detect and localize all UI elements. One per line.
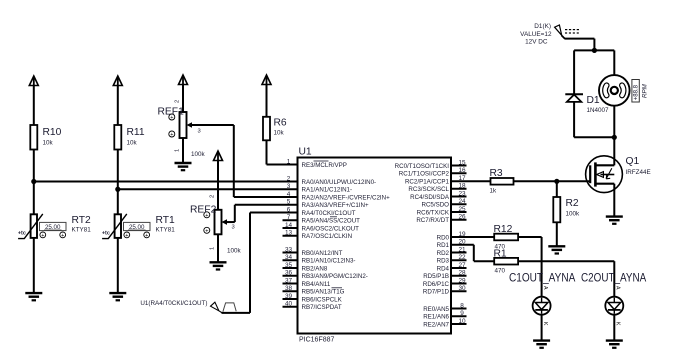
svg-text:470: 470 — [495, 268, 506, 275]
svg-text:1: 1 — [287, 158, 291, 165]
svg-text:RA4/T0CKI/C1OUT: RA4/T0CKI/C1OUT — [302, 210, 356, 217]
svg-text:RE1/AN6: RE1/AN6 — [423, 314, 449, 321]
svg-text:16: 16 — [458, 167, 466, 174]
svg-text:2: 2 — [287, 175, 291, 182]
svg-text:10: 10 — [458, 318, 466, 325]
U1 pin 24 RC5/SDO — [421, 198, 466, 209]
svg-text:1N4007: 1N4007 — [587, 107, 610, 114]
thermistor RT2 (KTY81) — [18, 214, 91, 239]
svg-text:RA3/AN3/VREF+/C1IN+: RA3/AN3/VREF+/C1IN+ — [302, 202, 369, 209]
svg-text:K: K — [615, 322, 621, 326]
wire U1 pin 6 (RA4) to test point — [222, 213, 298, 313]
power rail arrow for R10 — [29, 76, 38, 86]
svg-text:27: 27 — [458, 262, 466, 269]
svg-text:4: 4 — [287, 191, 291, 198]
svg-text:RB6/ICSPCLK: RB6/ICSPCLK — [302, 296, 343, 303]
svg-text:RB0/AN12/INT: RB0/AN12/INT — [302, 250, 343, 257]
U1 pin 19 RD0 — [437, 231, 466, 242]
svg-text:12V DC: 12V DC — [525, 39, 548, 46]
test point flag U1(RA4/T0CKI/C1OUT) — [140, 300, 236, 313]
svg-text:RD6/P1C: RD6/P1C — [423, 281, 450, 288]
svg-text:13: 13 — [285, 230, 293, 237]
svg-text:IRFZ44E: IRFZ44E — [626, 169, 651, 176]
U1 pin 20 RD1 — [437, 239, 466, 250]
wire REF2 wiper to U1 pin 5 (RA3) — [227, 205, 298, 222]
svg-text:R11: R11 — [127, 127, 145, 138]
svg-text:R2: R2 — [566, 198, 579, 209]
U1 pin 22 RD3 — [437, 254, 467, 265]
svg-text:1: 1 — [175, 149, 181, 152]
svg-text:+: + — [41, 233, 44, 239]
U1 pin 1 RE3/MCLR/VPP — [287, 158, 347, 169]
U1 pin 40 RB7/ICSPDAT — [283, 301, 342, 312]
wire R11 to RT1 — [117, 150, 119, 215]
svg-text:3: 3 — [232, 225, 235, 231]
svg-text:100k: 100k — [566, 211, 581, 218]
wire power to R11 — [117, 86, 119, 126]
wire LED2 to ground — [613, 315, 615, 341]
svg-text:28: 28 — [458, 270, 466, 277]
wire U1 pin 17 to R3 — [451, 180, 491, 182]
svg-text:1: 1 — [210, 247, 216, 250]
svg-text:RC6/TX/CK: RC6/TX/CK — [417, 209, 450, 216]
U1 pin 10 RE2/AN7 — [423, 318, 466, 329]
wire U1 pin 20 (RD1) to R1 — [451, 245, 494, 261]
U1 pin 16 RC1/T1OSI/CCP2 — [399, 167, 467, 178]
thermistor RT1 (KTY81) — [102, 214, 175, 239]
svg-text:40: 40 — [285, 301, 293, 308]
svg-text:RA5/AN4/SS/C2OUT: RA5/AN4/SS/C2OUT — [302, 218, 361, 225]
resistor R12 470 — [494, 224, 519, 251]
wire R1 to LED — [518, 261, 614, 297]
svg-text:33: 33 — [285, 246, 293, 253]
wire power to R6 — [266, 85, 268, 117]
svg-text:36: 36 — [285, 270, 293, 277]
svg-text:34: 34 — [285, 254, 293, 261]
svg-text:RC3/SCK/SCL: RC3/SCK/SCL — [408, 186, 449, 193]
svg-text:8: 8 — [460, 302, 464, 309]
svg-text:RT2: RT2 — [72, 215, 92, 226]
wire RA0 bus to U1 pin 2 — [34, 181, 298, 183]
svg-text:35: 35 — [285, 262, 293, 269]
svg-text:+tc: +tc — [18, 230, 26, 236]
svg-text:RD4: RD4 — [437, 265, 450, 272]
diode D1 1N4007 — [565, 94, 609, 114]
wire REF1 wiper to U1 pin 4 (RA2) — [192, 125, 298, 197]
svg-text:RB7/ICSPDAT: RB7/ICSPDAT — [302, 304, 342, 311]
wire RT2 to ground — [33, 238, 35, 293]
svg-text:C1OUT_AYNA: C1OUT_AYNA — [509, 271, 576, 285]
svg-text:7: 7 — [287, 214, 291, 221]
U1 pin 28 RD5/P1B — [423, 270, 466, 281]
svg-text:RC5/SDO: RC5/SDO — [421, 202, 449, 209]
U1 pin 13 RA7/OSC1/CLKIN — [283, 230, 353, 241]
overline SS — [330, 216, 337, 218]
svg-text:+: + — [170, 132, 173, 138]
wire motor to Q1 drain — [613, 106, 615, 166]
svg-text:+88.8: +88.8 — [634, 84, 640, 100]
U1 pin 39 RB6/ICSPCLK — [283, 293, 343, 304]
wire junction to R2 — [556, 181, 558, 197]
svg-text:A: A — [615, 286, 621, 290]
svg-text:3: 3 — [287, 183, 291, 190]
power rail arrow for REF1 — [179, 75, 188, 85]
wire supply to rail — [562, 35, 595, 50]
node junction R10/RA0 — [31, 179, 36, 184]
power rail arrow for R11 — [113, 76, 122, 86]
potentiometer REF2 100k — [190, 195, 242, 255]
svg-text:PIC16F887: PIC16F887 — [299, 337, 335, 344]
svg-text:C2OUT_AYNA: C2OUT_AYNA — [581, 271, 647, 285]
svg-text:RD0: RD0 — [437, 234, 450, 241]
svg-text:30: 30 — [458, 285, 466, 292]
node junction R11/RA1 — [115, 187, 120, 192]
microcontroller U1 PIC16F887 — [298, 147, 452, 344]
svg-text:K: K — [542, 322, 548, 326]
svg-text:D1: D1 — [587, 95, 600, 106]
svg-text:RC0/T1OSO/T1CKI: RC0/T1OSO/T1CKI — [395, 163, 450, 170]
ground below RT2 — [25, 293, 42, 300]
svg-text:A: A — [542, 286, 548, 290]
svg-text:RE2/AN7: RE2/AN7 — [423, 321, 449, 328]
svg-text:18: 18 — [458, 183, 466, 190]
svg-text:R6: R6 — [274, 118, 287, 129]
svg-text:+tc: +tc — [102, 230, 110, 236]
wire power to R10 — [33, 86, 35, 126]
led D3 C2OUT indicator — [605, 286, 623, 326]
svg-text:2: 2 — [175, 100, 181, 103]
U1 pin 18 RC3/SCK/SCL — [408, 183, 466, 194]
U1 pin 36 RB3/AN9/PGM/C12IN2- — [283, 270, 368, 281]
wire LED1 to ground — [541, 315, 543, 341]
U1 pin 3 RA1/AN1/C12IN1- — [287, 183, 352, 194]
svg-text:29: 29 — [458, 277, 466, 284]
svg-text:100k: 100k — [227, 248, 242, 255]
U1 pin 34 RB1/AN10/C12IN3- — [283, 254, 356, 265]
power rail arrow for R6 — [262, 75, 271, 85]
wire U1 pin 19 (RD0) to R12 — [451, 236, 494, 238]
wire R12 to LED D? — [518, 237, 542, 297]
U1 pin 35 RB2/AN8 — [283, 262, 328, 273]
U1 pin 7 RA5/AN4/SS/C2OUT — [283, 214, 361, 225]
svg-text:RE0/AN5: RE0/AN5 — [423, 306, 449, 313]
U1 pin 37 RB4/AN11 — [283, 277, 331, 288]
svg-text:D1(K): D1(K) — [534, 23, 551, 30]
wire power to REF1 — [182, 85, 184, 113]
node junction supply rail — [592, 48, 597, 53]
overline T1G — [332, 287, 343, 289]
svg-text:RA0/AN0/ULPWU/C12IN0-: RA0/AN0/ULPWU/C12IN0- — [302, 179, 377, 186]
wire REF1 to ground — [182, 138, 184, 163]
svg-text:100k: 100k — [191, 151, 206, 158]
svg-text:RA2/AN2/VREF-/CVREF/C2IN+: RA2/AN2/VREF-/CVREF/C2IN+ — [302, 194, 391, 201]
svg-text:KTY81: KTY81 — [72, 227, 92, 234]
svg-text:37: 37 — [285, 277, 293, 284]
svg-text:10k: 10k — [127, 140, 138, 147]
svg-text:REF1: REF1 — [158, 107, 185, 118]
svg-text:10k: 10k — [43, 140, 54, 147]
svg-text:RB2/AN8: RB2/AN8 — [302, 265, 328, 272]
svg-text:6: 6 — [287, 206, 291, 213]
ground below LED1 — [533, 341, 550, 348]
svg-text:38: 38 — [285, 285, 293, 292]
svg-text:25: 25 — [458, 206, 466, 213]
svg-text:RA1/AN1/C12IN1-: RA1/AN1/C12IN1- — [302, 187, 353, 194]
svg-text:RB4/AN11: RB4/AN11 — [302, 281, 331, 288]
svg-text:+: + — [205, 228, 208, 234]
wire R10 to RT2 — [33, 150, 35, 215]
svg-text:2: 2 — [210, 195, 216, 198]
wire rail D1 / motor — [574, 49, 614, 51]
ground below Q1 — [606, 217, 623, 224]
resistor R11 — [114, 125, 145, 150]
U1 pin 21 RD2 — [437, 246, 467, 256]
svg-text:R3: R3 — [490, 168, 503, 179]
U1 pin 6 RA4/T0CKI/C1OUT — [287, 206, 356, 217]
U1 pin 14 RA6/OSC2/CLKOUT — [283, 222, 360, 233]
U1 pin 26 RC7/RX/DT — [416, 214, 466, 225]
svg-text:22: 22 — [458, 254, 466, 261]
svg-text:KTY81: KTY81 — [156, 227, 176, 234]
svg-text:RB1/AN10/C12IN3-: RB1/AN10/C12IN3- — [302, 258, 356, 265]
svg-text:RE3/MCLR/VPP: RE3/MCLR/VPP — [302, 162, 347, 169]
svg-text:RT1: RT1 — [156, 215, 176, 226]
svg-text:24: 24 — [458, 198, 466, 205]
svg-text:VALUE=12: VALUE=12 — [520, 31, 552, 38]
svg-text:10k: 10k — [274, 130, 285, 137]
resistor R3 1k — [490, 168, 514, 195]
wire Q1 source to ground — [613, 184, 615, 217]
node junction D1/drain — [612, 135, 617, 140]
svg-text:21: 21 — [458, 246, 466, 253]
power terminal 12V DC — [520, 23, 579, 46]
svg-text:RD2: RD2 — [437, 250, 450, 257]
wire R2 to ground — [556, 222, 558, 246]
svg-text:RA6/OSC2/CLKOUT: RA6/OSC2/CLKOUT — [302, 225, 360, 232]
wire R3 to Q1 gate — [514, 180, 591, 182]
U1 pin 23 RC4/SDI/SDA — [410, 190, 466, 201]
svg-text:RA7/OSC1/CLKIN: RA7/OSC1/CLKIN — [302, 233, 353, 240]
U1 pin 38 RB5/AN13/T1G — [283, 285, 345, 296]
svg-text:+: + — [125, 233, 128, 239]
svg-text:RC7/RX/DT: RC7/RX/DT — [416, 217, 449, 224]
motor (DC motor with RPM meter) — [599, 75, 649, 106]
U1 pin 15 RC0/T1OSO/T1CKI — [395, 159, 467, 170]
wire RT1 to ground — [117, 238, 119, 293]
svg-text:+: + — [61, 233, 64, 239]
wire R6 to U1 pin 1 (MCLR) — [267, 140, 298, 164]
wire rail to motor — [613, 50, 615, 75]
U1 pin 17 RC2/P1A/CCP1 — [405, 175, 466, 186]
overline MCLR — [314, 160, 329, 162]
svg-text:23: 23 — [458, 190, 466, 197]
U1 pin 33 RB0/AN12/INT — [283, 246, 343, 256]
wire REF2 to ground — [217, 234, 219, 262]
U1 pin 2 RA0/AN0/ULPWU/C12IN0- — [287, 175, 376, 186]
svg-text:U1: U1 — [299, 147, 312, 158]
ground below RT1 — [109, 293, 126, 300]
svg-text:R1: R1 — [494, 248, 507, 259]
ground below REF1 — [175, 163, 192, 170]
resistor R6 — [263, 117, 287, 141]
wire D1 to drain column — [574, 136, 614, 138]
svg-text:9: 9 — [460, 310, 464, 317]
resistor R10 — [30, 125, 61, 150]
potentiometer REF1 100k — [158, 100, 206, 158]
svg-text:RD3: RD3 — [437, 258, 450, 265]
wire RA1 bus to U1 pin 3 — [118, 188, 298, 190]
U1 pin 4 RA2/AN2/VREF-/CVREF/C2IN+ — [287, 191, 390, 202]
U1 pin 27 RD4 — [437, 262, 467, 273]
transistor Q1 IRFZ44E (N-MOSFET) — [586, 156, 651, 193]
svg-text:+: + — [145, 233, 148, 239]
svg-text:14: 14 — [285, 222, 293, 229]
wire rail to D1 cathode — [573, 50, 575, 94]
svg-text:RC4/SDI/SDA: RC4/SDI/SDA — [410, 194, 450, 201]
svg-text:R12: R12 — [494, 224, 513, 235]
resistor R1 470 — [494, 248, 519, 274]
ground below LED2 — [606, 341, 623, 348]
U1 pin 30 RD7/P1D — [423, 285, 467, 296]
svg-text:RC1/T1OSI/CCP2: RC1/T1OSI/CCP2 — [399, 171, 450, 178]
wire power to REF2 — [217, 161, 219, 210]
svg-text:RPM: RPM — [642, 83, 649, 98]
svg-text:5: 5 — [287, 199, 291, 206]
power rail arrow for REF2 — [214, 151, 223, 161]
ground below REF2 — [210, 262, 227, 269]
svg-text:26: 26 — [458, 214, 466, 221]
U1 pin 5 RA3/AN3/VREF+/C1IN+ — [287, 199, 369, 210]
svg-text:REF2: REF2 — [190, 205, 217, 216]
svg-text:3: 3 — [198, 129, 201, 135]
led D2 C1OUT indicator — [533, 286, 551, 326]
svg-text:15: 15 — [458, 159, 466, 166]
svg-text:RB3/AN9/PGM/C12IN2-: RB3/AN9/PGM/C12IN2- — [302, 273, 368, 280]
svg-text:RD7/P1D: RD7/P1D — [423, 289, 450, 296]
svg-text:39: 39 — [285, 293, 293, 300]
node junction R3/R2 — [554, 179, 559, 184]
svg-text:1k: 1k — [490, 188, 498, 195]
wire D1 anode down — [573, 102, 575, 137]
U1 pin 29 RD6/P1C — [423, 277, 467, 288]
svg-text:Q1: Q1 — [626, 156, 640, 167]
svg-text:RB5/AN13/T1G: RB5/AN13/T1G — [302, 289, 345, 296]
svg-text:RD1: RD1 — [437, 242, 450, 249]
U1 pin 8 RE0/AN5 — [423, 302, 466, 313]
U1 pin 25 RC6/TX/CK — [417, 206, 467, 217]
svg-text:RD5/P1B: RD5/P1B — [423, 273, 449, 280]
svg-text:R10: R10 — [43, 127, 62, 138]
svg-text:RC2/P1A/CCP1: RC2/P1A/CCP1 — [405, 179, 450, 186]
U1 pin 9 RE1/AN6 — [423, 310, 466, 321]
resistor R2 100k — [553, 197, 580, 222]
ground below R2 — [548, 246, 565, 253]
svg-text:U1(RA4/T0CKI/C1OUT): U1(RA4/T0CKI/C1OUT) — [140, 300, 207, 307]
